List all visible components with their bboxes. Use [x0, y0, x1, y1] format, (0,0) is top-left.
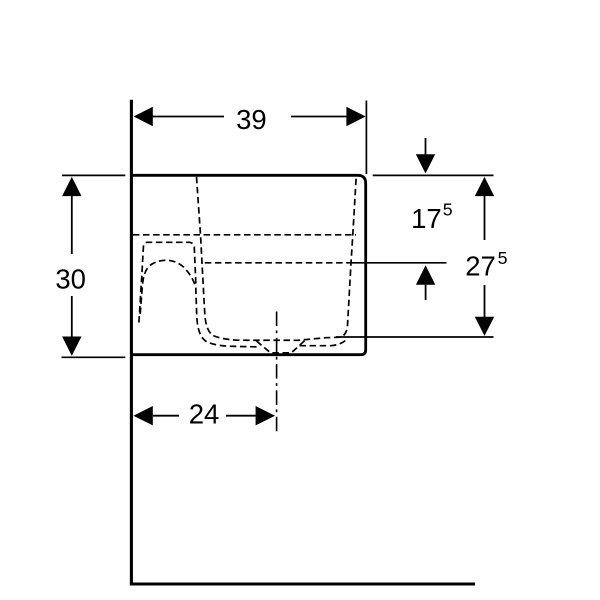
- dim 24 arrow right: [256, 406, 275, 425]
- dim 17.5 mid extension line: [350, 262, 447, 264]
- dim 39 extension line right: [365, 101, 367, 175]
- dim 39 line right segment: [291, 116, 347, 118]
- dim 27.5 arrow up: [475, 177, 494, 196]
- svg-text:27: 27: [465, 251, 496, 282]
- sink outline: [131, 175, 366, 354]
- dim 24 line right segment: [226, 415, 256, 417]
- dim 17.5 extension line top: [373, 174, 494, 176]
- dim 17.5 bottom arrowhead: [416, 265, 435, 284]
- svg-text:24: 24: [189, 399, 220, 430]
- svg-text:5: 5: [498, 248, 508, 268]
- under-surface right of drain (dashed): [300, 339, 347, 345]
- dim 24 arrow left: [133, 406, 152, 425]
- dim 17.5 top arrowhead: [416, 154, 435, 173]
- dim 39 arrow right: [346, 107, 365, 126]
- dim 39 arrow left: [134, 107, 153, 126]
- trap cavity outline (dashed): [139, 242, 196, 322]
- dim 27.5 bottom extension line: [336, 336, 494, 338]
- dim 30 extension line top: [62, 174, 125, 176]
- water level dashed line: [205, 262, 350, 264]
- dim 17.5 bottom arrow stem: [425, 285, 427, 300]
- dim 24 line left segment: [153, 415, 179, 417]
- svg-text:39: 39: [236, 104, 267, 135]
- dim 27.5 line upper segment: [484, 196, 486, 240]
- overflow level dashed line: [133, 234, 356, 236]
- svg-text:5: 5: [443, 199, 453, 219]
- dim 39 line left segment: [153, 116, 225, 118]
- svg-text:17: 17: [411, 203, 442, 234]
- dim 27.5 arrow down: [475, 317, 494, 336]
- dim 30 extension line bottom: [62, 356, 126, 358]
- dim 30 arrow up: [62, 177, 81, 196]
- floor: [130, 583, 475, 586]
- drain funnel (dashed): [257, 341, 305, 353]
- wall: [130, 100, 133, 586]
- basin under-surface / trap arch (dashed): [140, 260, 259, 347]
- dim 27.5 line lower segment: [484, 285, 486, 317]
- basin inner surface (dashed): [197, 177, 357, 340]
- dim 30 line lower segment: [71, 296, 73, 337]
- svg-text:30: 30: [55, 264, 86, 295]
- drain centerline: [276, 312, 278, 434]
- dim 17.5 top arrow stem: [425, 138, 427, 155]
- dim 30 arrow down: [62, 337, 81, 356]
- dim 30 line upper segment: [71, 196, 73, 255]
